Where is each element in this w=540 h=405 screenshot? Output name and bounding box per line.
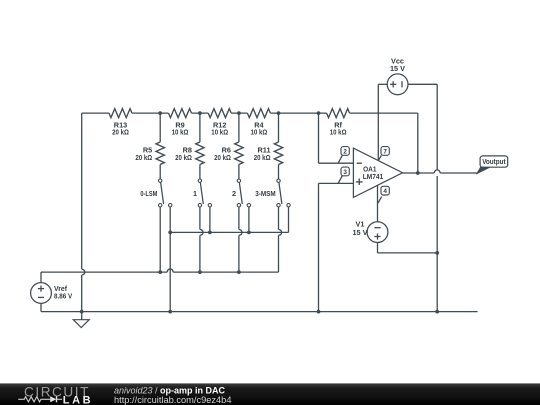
svg-text:3: 3 (343, 169, 347, 176)
svg-text:20 kΩ: 20 kΩ (135, 153, 152, 162)
svg-text:LM741: LM741 (363, 174, 383, 181)
svg-text:1: 1 (193, 189, 197, 198)
svg-text:2: 2 (343, 148, 347, 155)
svg-text:http://circuitlab.com/c9ez4b4: http://circuitlab.com/c9ez4b4 (114, 395, 232, 405)
svg-text:15 V: 15 V (352, 228, 367, 237)
svg-text:7: 7 (383, 148, 387, 155)
svg-text:10 kΩ: 10 kΩ (251, 128, 268, 137)
svg-text:2: 2 (232, 189, 236, 198)
svg-text:20 kΩ: 20 kΩ (214, 153, 231, 162)
svg-text:8.86 V: 8.86 V (54, 292, 72, 301)
svg-text:4: 4 (383, 188, 387, 195)
svg-text:Voutput: Voutput (482, 157, 506, 166)
svg-text:10 kΩ: 10 kΩ (330, 128, 347, 137)
svg-text:OA1: OA1 (363, 167, 376, 174)
svg-text:0-LSM: 0-LSM (140, 189, 157, 198)
svg-text:20 kΩ: 20 kΩ (254, 153, 271, 162)
svg-text:10 kΩ: 10 kΩ (211, 128, 228, 137)
svg-text:3-MSM: 3-MSM (255, 189, 276, 198)
svg-text:15 V: 15 V (390, 64, 405, 73)
svg-text:LAB: LAB (63, 395, 93, 405)
svg-text:10 kΩ: 10 kΩ (172, 128, 189, 137)
svg-text:20 kΩ: 20 kΩ (112, 128, 129, 137)
svg-text:20 kΩ: 20 kΩ (175, 153, 192, 162)
